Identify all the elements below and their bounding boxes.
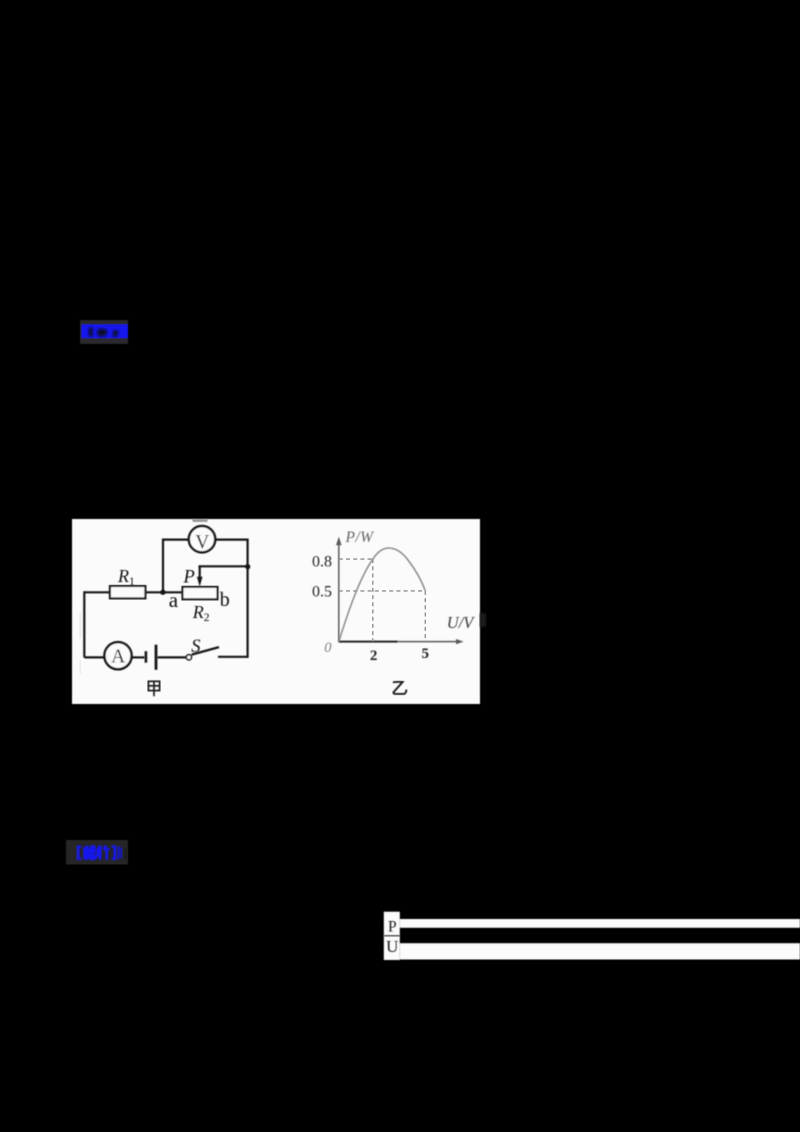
label 乙 bbox=[393, 682, 407, 694]
wire top-left to voltmeter bbox=[163, 538, 189, 540]
label 甲 bbox=[148, 681, 159, 696]
power curve bbox=[339, 548, 426, 642]
switch S bbox=[186, 647, 219, 660]
gray smudge above voltmeter bbox=[193, 519, 208, 522]
y axis bbox=[336, 537, 342, 642]
svg-text:0.8: 0.8 bbox=[312, 553, 332, 570]
wire left outer vertical bbox=[83, 591, 85, 657]
svg-text:P/W: P/W bbox=[345, 529, 376, 546]
wire R1 to node a to R2 bbox=[145, 591, 182, 593]
battery cell BT1 bbox=[145, 645, 158, 670]
wire voltmeter to top-right corner bbox=[215, 538, 247, 540]
wire junction to slider bbox=[200, 566, 248, 567]
wire bottom to ammeter bbox=[84, 656, 105, 658]
slider wiper arrow P bbox=[197, 566, 203, 586]
heading backing rect bbox=[66, 840, 128, 865]
svg-text:S: S bbox=[191, 637, 200, 657]
dashed guide vertical at 2 bbox=[372, 559, 374, 642]
svg-text:A: A bbox=[111, 647, 125, 668]
svg-text:a: a bbox=[169, 588, 179, 612]
wire left vertical of V-loop bbox=[162, 539, 164, 593]
node a bbox=[160, 590, 165, 595]
fraction white box bbox=[384, 912, 400, 960]
voltmeter V bbox=[189, 526, 215, 553]
glyph jie bbox=[83, 845, 95, 860]
svg-text:0: 0 bbox=[324, 640, 332, 656]
svg-text:P: P bbox=[388, 919, 397, 936]
svg-text:0.5: 0.5 bbox=[312, 584, 332, 601]
blue selection strip bbox=[82, 325, 129, 339]
glyph xi bbox=[95, 845, 110, 860]
wire battery to switch bbox=[157, 656, 186, 658]
faint cursor mark bbox=[124, 849, 126, 859]
faint bleed right of panel bbox=[480, 613, 486, 627]
resistor R1 bbox=[110, 586, 145, 598]
junction node (right vertical wire) bbox=[245, 564, 250, 569]
rheostat R2 bbox=[183, 587, 218, 600]
svg-text:V: V bbox=[195, 532, 209, 553]
dashed guide 0.8 horizontal bbox=[339, 558, 373, 560]
svg-text:5: 5 bbox=[421, 646, 429, 662]
faint scan lines at panel left bbox=[80, 613, 81, 638]
wire switch to right corner bbox=[218, 656, 248, 658]
formula line top bar bbox=[400, 919, 800, 928]
dashed guide 0.5 horizontal bbox=[339, 590, 426, 592]
ammeter A bbox=[104, 642, 131, 669]
blue heading glyphs bbox=[77, 845, 122, 860]
highlight backing rect bbox=[80, 320, 128, 344]
dark glyph marks on blue bbox=[89, 328, 119, 338]
bracket right bbox=[112, 845, 122, 860]
svg-text:U/V: U/V bbox=[447, 613, 476, 632]
bracket left bbox=[77, 845, 82, 860]
wire right vertical bbox=[247, 539, 249, 658]
fraction bar bbox=[384, 935, 400, 936]
dashed guide vertical at 5 bbox=[424, 591, 426, 642]
svg-text:2: 2 bbox=[370, 648, 378, 664]
wire R1 left lead bbox=[84, 591, 110, 593]
svg-text:b: b bbox=[220, 589, 230, 611]
x axis bbox=[339, 639, 464, 644]
svg-text:P: P bbox=[183, 568, 195, 588]
svg-text:U: U bbox=[386, 937, 398, 956]
wire ammeter to battery bbox=[131, 656, 145, 658]
formula line bottom bar bbox=[400, 943, 800, 959]
